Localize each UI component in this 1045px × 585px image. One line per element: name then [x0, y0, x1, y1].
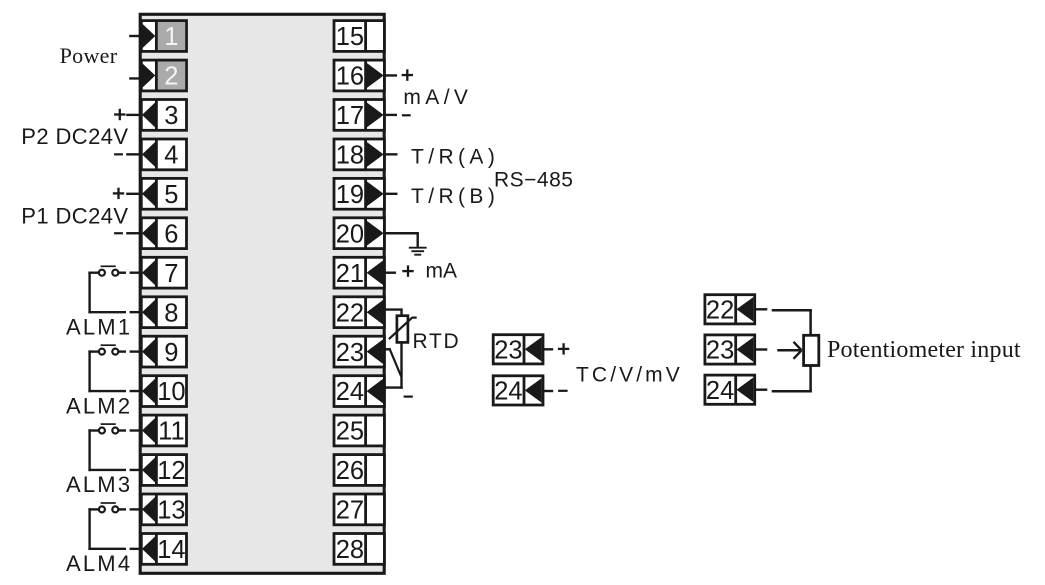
svg-text:3: 3 — [164, 102, 178, 130]
svg-text:ALM4: ALM4 — [66, 551, 132, 576]
svg-text:ALM2: ALM2 — [66, 394, 132, 419]
svg-text:ALM3: ALM3 — [66, 472, 132, 497]
svg-text:17: 17 — [336, 102, 364, 130]
svg-text:23: 23 — [706, 337, 734, 365]
svg-text:18: 18 — [336, 142, 364, 170]
svg-text:25: 25 — [336, 418, 364, 446]
svg-text:Power: Power — [60, 43, 118, 68]
svg-text:24: 24 — [494, 378, 522, 406]
svg-text:19: 19 — [336, 181, 364, 209]
svg-text:T/R(A): T/R(A) — [411, 146, 499, 169]
svg-text:ALM1: ALM1 — [66, 314, 132, 339]
svg-text:5: 5 — [164, 181, 178, 209]
svg-text:12: 12 — [157, 457, 185, 485]
svg-text:23: 23 — [494, 337, 522, 365]
svg-text:Potentiometer input: Potentiometer input — [827, 337, 1021, 363]
svg-text:15: 15 — [336, 23, 364, 51]
svg-text:28: 28 — [336, 536, 364, 564]
svg-text:P2 DC24V: P2 DC24V — [21, 124, 128, 149]
svg-text:P1 DC24V: P1 DC24V — [21, 204, 128, 229]
svg-text:7: 7 — [164, 260, 178, 288]
svg-text:1: 1 — [164, 23, 178, 51]
svg-text:24: 24 — [336, 378, 364, 406]
svg-text:11: 11 — [158, 418, 184, 446]
svg-text:mA/V: mA/V — [403, 86, 472, 109]
svg-text:24: 24 — [706, 377, 734, 405]
svg-text:RS−485: RS−485 — [494, 168, 573, 191]
svg-text:mA: mA — [426, 259, 458, 282]
svg-text:14: 14 — [157, 536, 185, 564]
svg-text:26: 26 — [336, 457, 364, 485]
svg-text:T/R(B): T/R(B) — [411, 185, 499, 208]
svg-text:21: 21 — [336, 260, 364, 288]
svg-text:TC/V/mV: TC/V/mV — [576, 363, 683, 386]
svg-text:20: 20 — [336, 220, 364, 248]
svg-text:6: 6 — [164, 220, 178, 248]
svg-text:9: 9 — [164, 339, 178, 367]
svg-text:10: 10 — [157, 378, 185, 406]
svg-text:8: 8 — [164, 299, 178, 327]
svg-text:22: 22 — [336, 299, 364, 327]
svg-text:22: 22 — [706, 297, 734, 325]
svg-text:RTD: RTD — [413, 330, 461, 353]
svg-text:4: 4 — [164, 142, 178, 170]
svg-text:2: 2 — [164, 63, 178, 91]
svg-text:16: 16 — [336, 63, 364, 91]
svg-text:23: 23 — [336, 339, 364, 367]
svg-text:13: 13 — [157, 497, 185, 525]
svg-text:27: 27 — [336, 497, 364, 525]
